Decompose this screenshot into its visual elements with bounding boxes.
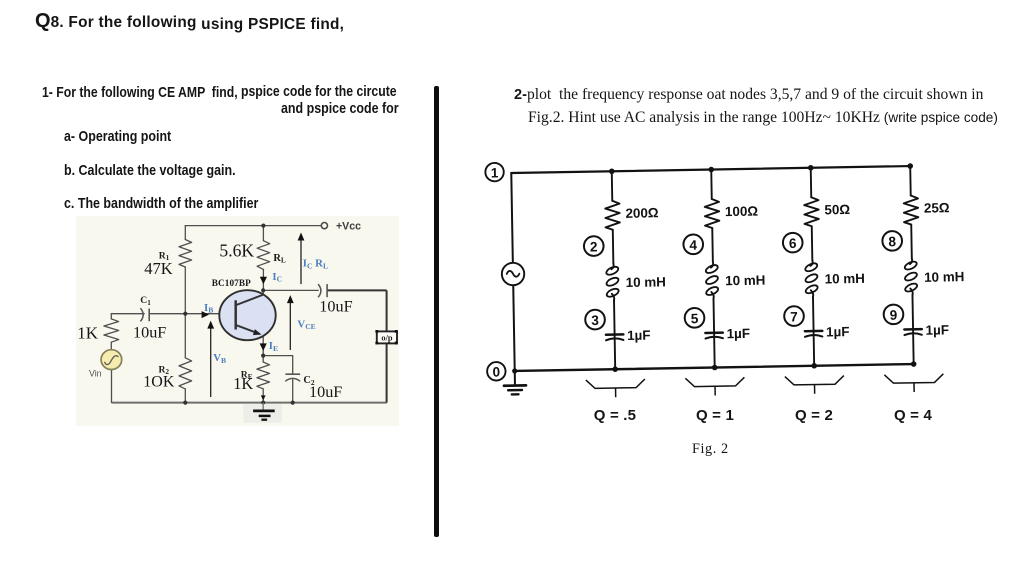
wire inductor to capacitor — [613, 300, 616, 337]
branch 3 — [802, 168, 823, 366]
arrow IB — [202, 311, 209, 318]
node 7 — [784, 306, 804, 326]
svg-text:1OK: 1OK — [143, 374, 175, 391]
wire top rail — [511, 166, 910, 173]
svg-text:10uF: 10uF — [133, 323, 166, 341]
right column text — [514, 86, 983, 104]
node 0 — [487, 362, 506, 381]
wire capacitor bottom lead — [614, 338, 617, 369]
wire emitter node to C2 — [263, 356, 293, 375]
Q factor labels (under right circuit) — [586, 408, 644, 423]
svg-text:5: 5 — [691, 311, 699, 326]
ground rail wire — [112, 402, 387, 404]
underbrace branch 2 — [685, 377, 744, 387]
wire collector to Cout — [263, 289, 318, 291]
arrow IE — [260, 343, 267, 351]
wire resistor to inductor — [811, 226, 814, 260]
svg-text:1µF: 1µF — [826, 324, 850, 339]
junction dot top branch 2 — [708, 167, 714, 173]
wire R1 top lead — [184, 226, 186, 240]
wire Vcc rail — [185, 225, 321, 227]
RLC ladder schematic (Fig.2) — [478, 144, 982, 409]
output port o/p — [377, 331, 397, 343]
wire branch 4 top lead — [909, 166, 912, 195]
capacitor C1 10uF — [140, 308, 143, 321]
source V ac — [502, 263, 525, 286]
svg-text:6: 6 — [789, 236, 797, 251]
arrow IC — [260, 277, 267, 284]
junction node ground C2 — [291, 401, 295, 405]
svg-text:8: 8 — [888, 234, 896, 249]
wire Cout to o/p — [327, 289, 387, 291]
left column text — [42, 84, 477, 101]
junction node Vcc/RL — [261, 224, 265, 228]
capacitor C2 10uF — [285, 373, 300, 375]
schematic background — [76, 216, 399, 426]
wire resistor to inductor — [711, 228, 714, 262]
svg-text:0: 0 — [492, 365, 500, 380]
junction dot bottom branch 1 — [612, 366, 618, 372]
ground — [514, 371, 516, 384]
wire RE bottom lead — [262, 389, 264, 403]
source Vin — [101, 350, 122, 370]
wire inductor to capacitor — [812, 297, 815, 334]
svg-text:100Ω: 100Ω — [725, 204, 759, 220]
header Q8 — [35, 10, 344, 33]
wire inductor to capacitor — [712, 299, 715, 336]
resistor Rs 1K — [104, 319, 119, 342]
wire RL to collector — [262, 269, 264, 290]
wire capacitor bottom lead — [912, 333, 915, 364]
svg-text:2: 2 — [590, 239, 598, 254]
resistor R1 47K — [179, 240, 192, 267]
svg-text:1K: 1K — [233, 374, 253, 393]
junction dot bottom branch 2 — [712, 365, 718, 371]
junction dot bottom branch 4 — [911, 361, 917, 367]
node 1 — [485, 163, 504, 182]
wire RL top lead — [262, 226, 264, 241]
svg-text:25Ω: 25Ω — [924, 200, 950, 215]
svg-text:1K: 1K — [77, 324, 99, 343]
wire C2 bottom lead — [292, 380, 294, 403]
svg-text:1: 1 — [491, 165, 499, 180]
underbrace branch 4 — [884, 374, 943, 384]
wire base net — [149, 313, 235, 315]
svg-text:47K: 47K — [144, 259, 173, 278]
junction node base — [183, 312, 187, 316]
svg-text:7: 7 — [790, 309, 798, 324]
capacitor Cout 10uF — [318, 284, 321, 297]
arrow RE current — [261, 395, 266, 400]
capacitor 1uF — [705, 331, 722, 334]
svg-text:Vin: Vin — [89, 368, 102, 378]
wire 1K top lead — [110, 314, 112, 319]
wire RE top lead — [262, 356, 264, 362]
junction dot top branch 1 — [609, 168, 615, 174]
svg-text:3: 3 — [591, 313, 599, 328]
resistor RE 1K — [257, 362, 270, 389]
wire capacitor bottom lead — [813, 335, 816, 366]
junction node collector — [261, 288, 265, 292]
node 6 — [783, 233, 803, 253]
wire inductor to capacitor — [911, 295, 914, 332]
resistor 25Ω — [904, 195, 919, 224]
underbrace branch 3 — [785, 376, 844, 386]
svg-text:1µF: 1µF — [627, 328, 651, 343]
wire bottom rail — [515, 364, 914, 371]
wire emitter vertical — [262, 336, 264, 356]
inductor 10 mH — [711, 262, 713, 268]
svg-text:10 mH: 10 mH — [626, 274, 666, 290]
junction node ground R2 — [183, 401, 187, 405]
arrow VCE — [289, 297, 291, 350]
underbrace branch 1 — [586, 379, 645, 389]
inductor 10 mH — [910, 259, 912, 265]
wire Vin to ground rail — [111, 370, 113, 403]
svg-text:50Ω: 50Ω — [824, 202, 850, 217]
branch 2 — [703, 169, 724, 367]
svg-text:5.6K: 5.6K — [219, 241, 254, 261]
svg-text:4: 4 — [689, 238, 697, 253]
wire R2 bottom lead — [184, 389, 186, 403]
wire branch 3 top lead — [810, 168, 813, 197]
inductor 10 mH — [810, 260, 812, 266]
junction dot top branch 3 — [808, 165, 814, 171]
CE amplifier schematic (Fig.1) — [76, 216, 400, 427]
node 4 — [683, 234, 703, 254]
svg-text:+Vcc: +Vcc — [336, 221, 361, 233]
resistor R2 1OK — [179, 358, 192, 389]
ground — [243, 404, 282, 423]
svg-text:10uF: 10uF — [319, 297, 352, 315]
svg-text:1µF: 1µF — [925, 322, 949, 337]
svg-text:200Ω: 200Ω — [625, 205, 659, 221]
branch 1 — [603, 171, 624, 369]
wire left vertical — [511, 173, 514, 371]
node 2 — [584, 236, 604, 256]
resistor RL 5.6K — [257, 241, 270, 270]
svg-text:9: 9 — [890, 308, 898, 323]
junction dot top branch 4 — [907, 163, 913, 169]
branch 4 — [902, 166, 923, 364]
wire R1 bottom lead — [184, 267, 186, 314]
terminal +Vcc — [321, 223, 327, 229]
junction node 0 dot — [512, 368, 517, 373]
node 8 — [882, 231, 902, 251]
wire branch 2 top lead — [710, 170, 713, 199]
inductor 10 mH — [611, 264, 613, 270]
svg-text:o/p: o/p — [381, 334, 393, 343]
svg-text:10uF: 10uF — [309, 383, 342, 401]
svg-text:10 mH: 10 mH — [725, 273, 765, 289]
wire source to C1 — [111, 313, 144, 315]
arrow IC RL — [300, 235, 302, 284]
resistor 200Ω — [605, 201, 620, 230]
wire Rs to Vin — [110, 342, 112, 349]
figure caption — [692, 441, 729, 458]
node 3 — [585, 310, 605, 330]
wire branch 1 top lead — [611, 171, 614, 200]
wire capacitor bottom lead — [713, 337, 716, 368]
wire R2 top lead — [184, 314, 186, 358]
node 5 — [685, 308, 705, 328]
wire output vertical — [386, 290, 388, 402]
resistor 100Ω — [705, 199, 720, 228]
svg-text:BC107BP: BC107BP — [212, 278, 251, 288]
wire resistor to inductor — [612, 230, 615, 264]
svg-text:10 mH: 10 mH — [924, 269, 964, 285]
resistor 50Ω — [804, 197, 819, 226]
capacitor 1uF — [904, 328, 921, 331]
junction dot bottom branch 3 — [811, 363, 817, 369]
node 9 — [884, 304, 904, 324]
junction node ground RE — [261, 401, 265, 405]
wire resistor to inductor — [910, 225, 913, 259]
vertical divider bar — [434, 86, 439, 537]
svg-text:10 mH: 10 mH — [825, 271, 865, 287]
arrow VB — [210, 323, 212, 397]
svg-text:1µF: 1µF — [726, 326, 750, 341]
capacitor 1uF — [606, 333, 623, 336]
junction node emitter — [261, 354, 265, 358]
capacitor 1uF — [805, 330, 822, 333]
transistor Q1 BC107BP — [219, 290, 275, 340]
wire collector stub — [262, 290, 264, 294]
